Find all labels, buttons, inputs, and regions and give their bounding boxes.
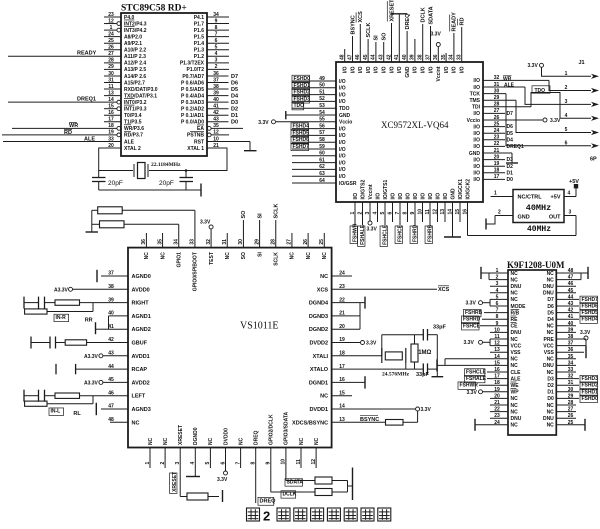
- svg-text:46: 46: [355, 54, 361, 60]
- svg-text:NC: NC: [547, 277, 555, 283]
- J1 pin 3 arrow: [565, 99, 599, 107]
- svg-text:11: 11: [108, 84, 114, 90]
- svg-text:NC: NC: [547, 324, 555, 330]
- supply 3.3V at U4 DVDD2: [332, 341, 377, 347]
- wire crystal cap rail: [99, 189, 201, 191]
- svg-text:12: 12: [311, 459, 317, 465]
- svg-text:41: 41: [394, 54, 400, 60]
- U1 pin 14 INT0/P3.2: [8, 97, 147, 106]
- svg-text:15: 15: [108, 104, 114, 110]
- ground at DCLK/SDATA: [348, 468, 353, 501]
- net label FSHD4 (U2): [291, 123, 309, 130]
- U3 right pin 32 D3: [547, 374, 573, 383]
- svg-text:I/O: I/O: [460, 66, 466, 73]
- U4 left pin 41 AGND2: [108, 324, 151, 333]
- net label XRESET (U4): [170, 472, 178, 494]
- U2 top pin 37 I/O: [425, 26, 434, 73]
- svg-text:8: 8: [251, 462, 257, 465]
- net label BSYNC + pullup R7: [332, 411, 418, 425]
- svg-text:25: 25: [108, 38, 114, 44]
- svg-text:14: 14: [108, 97, 114, 103]
- svg-text:17: 17: [108, 117, 114, 123]
- svg-text:PRE: PRE: [544, 337, 555, 343]
- svg-text:RST: RST: [194, 139, 204, 145]
- net label FSHRB (U3): [464, 309, 509, 316]
- U2 bottom pin 8 I/O: [402, 193, 411, 222]
- svg-text:I/O: I/O: [339, 147, 346, 153]
- supply A3.3V at U4 AVDD0: [54, 287, 128, 293]
- svg-text:I/O: I/O: [339, 126, 346, 132]
- U2 top pin 34 I/O: [449, 33, 458, 73]
- net label SO (U2 top): [382, 32, 388, 41]
- svg-text:FSHD2: FSHD2: [582, 383, 599, 389]
- U3 left pin 21 NC: [490, 400, 518, 409]
- svg-text:I/O: I/O: [350, 66, 356, 73]
- wire U4 AGND0: [101, 275, 128, 277]
- svg-text:1: 1: [494, 191, 497, 197]
- svg-text:P 0.6/AD6: P 0.6/AD6: [181, 80, 204, 86]
- wire U2 ALE to J1 pin3: [483, 87, 591, 104]
- U3 right pin 48 NC: [547, 268, 574, 277]
- svg-text:I/O: I/O: [339, 92, 346, 98]
- svg-text:A12/P 2.4: A12/P 2.4: [124, 61, 146, 67]
- svg-text:35: 35: [441, 54, 447, 60]
- oscillator text GND: [518, 215, 530, 221]
- svg-text:I/O: I/O: [389, 66, 395, 73]
- svg-text:I/O: I/O: [339, 133, 346, 139]
- svg-text:I/O: I/O: [473, 138, 480, 144]
- caption: figure 2 system hardware schematic: [247, 508, 391, 524]
- svg-text:READY: READY: [452, 12, 458, 32]
- resistor R5 (LEFT): [55, 393, 128, 398]
- U4 left pin 43 AVDD1: [108, 351, 150, 360]
- U3 left pin 4 NC: [490, 288, 518, 297]
- U2 right pin 20 I/O: [473, 154, 499, 163]
- U4 top pin 25 NC: [319, 233, 328, 259]
- svg-text:33: 33: [457, 54, 463, 60]
- svg-text:Vccint: Vccint: [436, 66, 442, 81]
- svg-text:A13/P 2.5: A13/P 2.5: [124, 67, 146, 73]
- U4 top pin 36 NC: [141, 233, 150, 259]
- net label D0 (U2 right): [483, 177, 513, 183]
- svg-text:J1: J1: [579, 60, 585, 66]
- U4 bottom pin 7 NC: [235, 437, 244, 468]
- svg-text:DNU: DNU: [543, 291, 554, 297]
- svg-text:TDO: TDO: [339, 106, 350, 112]
- U3 left pin 10 DNU: [490, 327, 522, 336]
- svg-text:I/O: I/O: [428, 193, 434, 200]
- svg-text:DVDD0: DVDD0: [223, 428, 229, 445]
- svg-text:Vccint: Vccint: [368, 184, 374, 199]
- U1 pin 35 EA: [197, 123, 243, 132]
- net label D2: [231, 107, 238, 113]
- svg-text:3.3V: 3.3V: [580, 330, 591, 336]
- U3 right pin 33 NC: [547, 367, 576, 376]
- U1 pin 25 A9/P2.1: [104, 38, 142, 47]
- svg-text:40MHz: 40MHz: [526, 203, 552, 213]
- U4 right pin 23 XCS: [317, 284, 345, 293]
- svg-text:SI: SI: [374, 35, 380, 41]
- U4 bottom pin 6 DVDD0: [220, 428, 229, 471]
- svg-text:18: 18: [108, 123, 114, 129]
- svg-text:IN-R: IN-R: [56, 315, 67, 321]
- U1 pin 21 XTAL 1: [187, 143, 227, 152]
- svg-text:41: 41: [213, 104, 219, 110]
- net label FSHALE (U2 bottom): [358, 224, 366, 246]
- oscillator X2 40MHz body: [513, 190, 564, 223]
- svg-text:GND: GND: [339, 113, 351, 119]
- svg-text:22.1184MHz: 22.1184MHz: [151, 162, 181, 168]
- U2 bottom pin 6 I/O: [387, 193, 396, 222]
- svg-text:1: 1: [110, 25, 113, 31]
- net label FSHD6 (U3): [556, 303, 598, 310]
- U3 right pin 36 VSS: [544, 347, 574, 356]
- ground at U4 DGND pins: [364, 297, 366, 309]
- resistor R1 (GPIO0 pulldown): [92, 207, 195, 214]
- svg-text:FSHD4: FSHD4: [293, 124, 310, 130]
- svg-text:RR: RR: [85, 318, 93, 324]
- svg-text:33: 33: [190, 239, 196, 245]
- svg-text:LEFT: LEFT: [132, 394, 146, 400]
- svg-text:I/O: I/O: [353, 193, 359, 200]
- svg-text:26: 26: [108, 45, 114, 51]
- svg-text:SCLK: SCLK: [366, 23, 372, 38]
- svg-text:13: 13: [108, 90, 114, 96]
- U2 top pin 45 I/O: [363, 39, 372, 73]
- net label D5: [231, 87, 238, 93]
- net label FSHD2 (U3): [556, 382, 598, 389]
- svg-text:7: 7: [395, 212, 401, 215]
- svg-text:36: 36: [141, 239, 147, 245]
- label RL: [73, 411, 81, 417]
- svg-text:7: 7: [215, 31, 218, 37]
- wire U2 TDI to J1 pin4: [483, 93, 591, 119]
- svg-text:45: 45: [363, 54, 369, 60]
- svg-text:ALE: ALE: [124, 139, 135, 145]
- U2 right pin 21 GND: [469, 148, 500, 157]
- U4 bottom pin 4 DGND0: [190, 427, 199, 476]
- svg-text:SDATA: SDATA: [287, 480, 304, 486]
- input network RIGHT: terminal: [24, 297, 39, 309]
- svg-text:8: 8: [215, 25, 218, 31]
- svg-text:I/O: I/O: [435, 193, 441, 200]
- svg-text:I/O: I/O: [452, 66, 458, 73]
- svg-text:FSHCE: FSHCE: [463, 323, 481, 329]
- svg-text:31: 31: [222, 239, 228, 245]
- svg-text:GBUF: GBUF: [132, 341, 148, 347]
- svg-text:DREQ1: DREQ1: [77, 97, 96, 103]
- U3 left pin 2 NC: [496, 275, 519, 284]
- supply 3.3V to J1 pin1: [528, 63, 592, 76]
- svg-text:26: 26: [303, 239, 309, 245]
- net label DCLK: [281, 491, 297, 498]
- U1 pin 17 T1/P3.5: [104, 117, 142, 126]
- svg-text:VCC: VCC: [543, 343, 554, 349]
- U2 right pin 29 TMS: [469, 95, 499, 104]
- U2 left pin 56 I/O: [292, 123, 346, 132]
- svg-text:P 0.4/AD4: P 0.4/AD4: [181, 93, 204, 99]
- U4 right pin 15 NC: [320, 390, 345, 399]
- stub U4 pin24: [332, 275, 352, 277]
- svg-text:SDATA: SDATA: [428, 6, 434, 24]
- U2 top pin 46 I/O: [355, 24, 364, 73]
- svg-text:SO: SO: [241, 252, 247, 259]
- svg-text:36: 36: [213, 71, 219, 77]
- oscillator text NC/CTRL: [518, 195, 543, 201]
- U2 right pin 31 I/O: [473, 82, 499, 91]
- net label SDATA (U2 top): [428, 6, 434, 24]
- oscillator pin 4 to +5V: [564, 179, 579, 197]
- U2 bottom pin 14 GND: [447, 188, 456, 237]
- U1 pin 15 INT1/P3.3: [104, 104, 147, 113]
- net label D1: [231, 113, 238, 119]
- svg-text:NC: NC: [547, 409, 555, 415]
- svg-text:IO/GCK2: IO/GCK2: [465, 179, 471, 200]
- U1 pin 39 P 0.4/AD4: [181, 90, 228, 99]
- J1 pin 4 arrow: [565, 113, 599, 121]
- ground at U2 pin14: [444, 236, 461, 238]
- svg-text:29: 29: [108, 64, 114, 70]
- svg-text:I/O: I/O: [339, 140, 346, 146]
- svg-text:34: 34: [213, 12, 219, 18]
- svg-text:FSHALE: FSHALE: [466, 376, 487, 382]
- svg-text:P1.7: P1.7: [194, 21, 205, 27]
- svg-text:I/O: I/O: [339, 99, 346, 105]
- svg-text:D5: D5: [231, 87, 238, 93]
- svg-text:P1.4: P1.4: [194, 41, 205, 47]
- svg-text:DGND3: DGND3: [309, 314, 328, 320]
- svg-text:D7: D7: [507, 111, 514, 117]
- U1 pin 34 P4.1: [194, 12, 229, 21]
- supply A3.3V at U4 AVDD1: [84, 354, 128, 360]
- svg-text:I/O: I/O: [405, 193, 411, 200]
- svg-text:DNU: DNU: [511, 416, 522, 422]
- svg-text:2: 2: [215, 64, 218, 70]
- svg-text:DVDD2: DVDD2: [309, 341, 328, 347]
- U4 right pin 18 XTALI: [313, 351, 345, 360]
- connector J1 label: [579, 60, 585, 66]
- svg-text:24.576MHz: 24.576MHz: [382, 372, 410, 378]
- svg-text:I/O: I/O: [444, 66, 450, 73]
- svg-text:6P: 6P: [590, 157, 597, 163]
- svg-text:RIGHT: RIGHT: [132, 301, 150, 307]
- U1 pin 38 P 0.5/AD5: [181, 84, 228, 93]
- svg-text:47: 47: [347, 54, 353, 60]
- supply 3.3V at U4 DVDD0: [217, 471, 228, 483]
- stub bar over U2 pin 41: [391, 13, 407, 15]
- svg-text:TDO: TDO: [535, 88, 546, 94]
- U1 pin 10 RST: [194, 136, 250, 145]
- svg-text:D2: D2: [507, 164, 514, 170]
- flash U3 K9F1208-U0M title: [507, 260, 565, 270]
- svg-text:GND: GND: [405, 66, 411, 78]
- U3 left pin 1 NC: [496, 268, 519, 277]
- svg-text:XTALI: XTALI: [313, 354, 329, 360]
- net label ALE (U1): [84, 137, 95, 143]
- svg-text:3.3V: 3.3V: [464, 340, 475, 346]
- svg-text:6: 6: [387, 212, 393, 215]
- svg-text:I/O: I/O: [413, 66, 419, 73]
- stub U4 pin48 NC: [110, 421, 128, 423]
- svg-text:XRESET: XRESET: [172, 472, 178, 492]
- svg-text:D6: D6: [547, 304, 554, 310]
- net label FSHD0 (U2): [292, 75, 310, 82]
- U4 bottom pin 5 NC: [205, 437, 214, 468]
- U3 right pin 28 NC: [547, 400, 576, 409]
- svg-text:I/O: I/O: [339, 79, 346, 85]
- U3 left pin 23 DNU: [490, 413, 522, 422]
- svg-text:1: 1: [350, 212, 356, 215]
- svg-text:D4: D4: [547, 317, 554, 323]
- svg-text:40: 40: [402, 54, 408, 60]
- svg-text:34: 34: [449, 54, 455, 60]
- U2 bottom pin 16 IO/GCK2: [462, 179, 471, 236]
- svg-text:38: 38: [213, 84, 219, 90]
- svg-text:WR: WR: [503, 76, 512, 82]
- stub U4 pin15: [332, 395, 352, 397]
- svg-text:RCAP: RCAP: [132, 367, 148, 373]
- svg-text:NC: NC: [547, 330, 555, 336]
- U4 left pin 46 LEFT: [108, 390, 146, 399]
- svg-text:IO/GTS1: IO/GTS1: [383, 180, 389, 200]
- oscillator pin 1: [491, 191, 513, 197]
- U3 right pin 38 PRE: [544, 334, 574, 343]
- U4 left pin 37 AGND0: [108, 271, 151, 280]
- svg-text:25: 25: [319, 239, 325, 245]
- wire SDATA + resistor R10: [286, 477, 348, 484]
- svg-text:FSHCE: FSHCE: [398, 224, 404, 242]
- wire U2 TMS to J1 pin5: [483, 100, 591, 132]
- svg-text:DCLK: DCLK: [421, 7, 427, 22]
- ground at crystal network: [432, 376, 444, 378]
- U3 left pin 9 CE: [496, 321, 519, 330]
- svg-text:3: 3: [569, 210, 572, 216]
- U1 pin 6 P1.4: [194, 38, 229, 47]
- svg-text:D0: D0: [547, 396, 554, 402]
- U3 right pin 37 VCC: [543, 341, 573, 350]
- svg-text:D2: D2: [231, 107, 238, 113]
- svg-text:NC: NC: [511, 409, 519, 415]
- svg-text:3.3V: 3.3V: [217, 477, 228, 483]
- U1 pin 37 P 0.6/AD6: [181, 77, 228, 86]
- svg-text:XRESET: XRESET: [389, 0, 395, 22]
- svg-text:FSHRB: FSHRB: [465, 310, 483, 316]
- wire LEFT to IN-L chain: [92, 396, 94, 404]
- ground at U4 AGND1/2: [95, 322, 97, 334]
- net label D4 (U2 right): [483, 137, 513, 143]
- resistor R3 (RIGHT): [55, 300, 128, 305]
- U2 bottom pin 15 IO/GCK1: [455, 179, 464, 222]
- U4 left pin 44 RCAP: [108, 364, 147, 373]
- svg-text:FSHRD: FSHRD: [463, 317, 481, 323]
- svg-text:DNU: DNU: [511, 330, 522, 336]
- net label D6: [231, 80, 238, 86]
- svg-text:P0.7/AD7: P0.7/AD7: [182, 74, 204, 80]
- U4 top pin 29 SI: [254, 220, 263, 257]
- U1 pin 36 P0.7/AD7: [182, 71, 228, 80]
- U4 bottom pin 8 DREQ: [251, 430, 260, 503]
- U4 top pin 27 NC: [287, 233, 296, 259]
- svg-text:FSHD5: FSHD5: [582, 310, 599, 316]
- wire XTALI: [332, 335, 382, 356]
- label C7 33pF: [433, 325, 446, 331]
- svg-text:XTAL 1: XTAL 1: [187, 146, 204, 152]
- svg-text:1MΩ: 1MΩ: [418, 350, 431, 356]
- MCU U1 STC89C58 body: [121, 13, 207, 156]
- svg-text:I/O: I/O: [398, 193, 404, 200]
- svg-text:3: 3: [215, 58, 218, 64]
- svg-text:DNU: DNU: [543, 363, 554, 369]
- svg-text:NC: NC: [511, 403, 519, 409]
- svg-text:I/O: I/O: [473, 124, 480, 130]
- net label D4: [231, 93, 239, 99]
- svg-text:3.3V: 3.3V: [200, 220, 211, 226]
- capacitor C5 (RCAP): [56, 364, 128, 374]
- svg-text:NC: NC: [208, 437, 214, 445]
- ground at R1 R2: [86, 210, 99, 232]
- svg-text:37: 37: [213, 77, 219, 83]
- svg-text:33pF: 33pF: [416, 372, 429, 378]
- capacitor C4 (GBUF): [50, 337, 65, 349]
- U2 bottom pin 7 I/O: [395, 193, 404, 225]
- svg-text:6: 6: [220, 462, 226, 465]
- U2 bottom pin 10 I/O: [417, 193, 426, 222]
- U2 left pin 53 TDO: [292, 103, 350, 112]
- svg-text:PSTNB: PSTNB: [187, 133, 204, 139]
- svg-text:ALE: ALE: [511, 376, 522, 382]
- wire U2 WR to J1 pin2: [483, 80, 591, 90]
- U4 left pin 47 AGND3: [108, 404, 151, 413]
- net label FSHRD (U3): [462, 316, 509, 323]
- svg-text:3.3V: 3.3V: [466, 301, 477, 307]
- U2 left pin 58 I/O: [292, 137, 346, 146]
- svg-text:A11/P 2.3: A11/P 2.3: [124, 54, 146, 60]
- svg-text:XCS: XCS: [317, 287, 329, 293]
- net label WR (U2): [503, 76, 512, 83]
- svg-text:DGND1: DGND1: [309, 380, 328, 386]
- U3 right pin 34 DNU: [543, 360, 576, 369]
- U1 pin 12 INT2/P4.3: [104, 18, 147, 27]
- oscillator text OUT: [549, 215, 561, 221]
- svg-text:RD/P3.7: RD/P3.7: [124, 133, 143, 139]
- svg-text:NC: NC: [547, 357, 555, 363]
- U3 left pin 22 NC: [490, 407, 518, 416]
- svg-text:39: 39: [410, 54, 416, 60]
- U2 top pin 48 I/O: [340, 49, 349, 73]
- U1 pin 13 TXD/DAT/P3.1: [104, 90, 157, 99]
- svg-text:DREQ: DREQ: [405, 13, 411, 30]
- svg-text:FSHRD: FSHRD: [413, 224, 419, 242]
- svg-text:3.3V: 3.3V: [467, 390, 478, 396]
- svg-text:DNU: DNU: [543, 284, 554, 290]
- U1 pin 42 P 0.1/AD1: [181, 110, 228, 119]
- svg-text:P1.0/T2: P1.0/T2: [186, 67, 204, 73]
- svg-text:42: 42: [213, 110, 219, 116]
- net label READY (U2 top): [450, 12, 458, 32]
- svg-text:FSHD1: FSHD1: [294, 83, 311, 89]
- label 6P (J1): [590, 157, 597, 163]
- U2 top pin 44 I/O: [371, 42, 380, 73]
- U3 left pin 15 NC: [494, 360, 518, 369]
- svg-text:NC: NC: [148, 437, 154, 445]
- svg-text:VSS: VSS: [511, 350, 522, 356]
- U1 pin 31 A15/P2.7: [104, 77, 145, 86]
- svg-text:FSHCLE: FSHCLE: [466, 370, 487, 376]
- ground at U3 pin24: [475, 419, 508, 431]
- svg-text:27: 27: [287, 239, 293, 245]
- svg-text:XTALO: XTALO: [310, 367, 329, 373]
- svg-text:D6: D6: [507, 124, 514, 130]
